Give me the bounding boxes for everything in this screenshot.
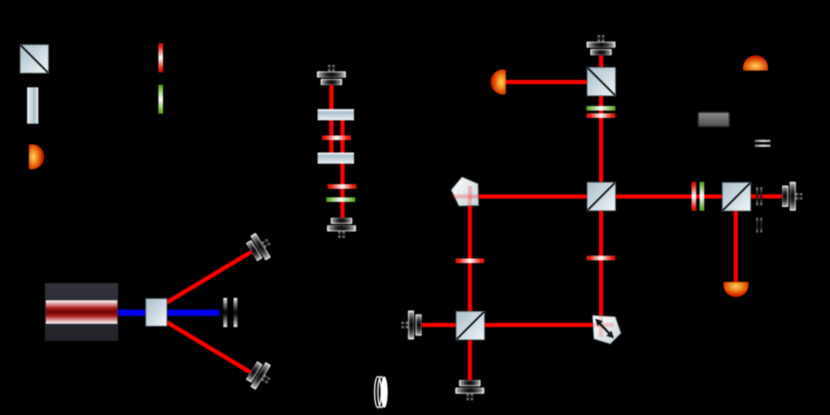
beam BS1-to-BS2 vertical [599, 96, 603, 183]
AOM crystal [146, 299, 167, 327]
legend red waveplate [158, 43, 163, 72]
telescope mid red waveplate [322, 136, 351, 141]
steering mirror lower [244, 358, 276, 393]
photodiode PD4 [724, 282, 749, 297]
beam BS4-to-bottom-mirror vertical [468, 339, 472, 380]
beam AOM-to-etalon (blue) [167, 310, 220, 316]
photodiode PD1 [491, 70, 506, 95]
legend gray box [698, 112, 729, 127]
beam lens1-to-lens2 left [329, 118, 333, 154]
legend beam-splitter cube [20, 45, 49, 74]
beam pentaprism-to-BS2 horizontal [458, 194, 588, 198]
beam BS3-to-right-mirror [749, 194, 783, 198]
legend photodiode top-right [743, 55, 768, 70]
beam splitter BS4 [456, 311, 485, 340]
red waveplate above BS4 [455, 259, 484, 264]
right end mirror [782, 182, 802, 211]
aperture pair right of BS3 [756, 187, 762, 205]
laser box [45, 283, 118, 341]
mirror left of BS4 [402, 311, 422, 340]
beam telescope-mirror-to-lens1 [329, 84, 333, 110]
beam top-mirror-to-BS1 [599, 55, 603, 68]
beam BS2-to-BS3 horizontal [614, 194, 723, 198]
beam PD1-to-BS1 [506, 80, 589, 84]
beam BS4-to-piezo-pentagon horizontal [483, 323, 613, 327]
telescope lens L1 [318, 109, 354, 120]
piezo pentagon mirror [592, 315, 621, 344]
beam splitter BS3 [722, 182, 751, 211]
telescope lens L2 [318, 153, 354, 164]
beam lens1-to-lens2 right [340, 118, 344, 154]
etalon plate 1 [223, 298, 227, 327]
telescope bottom mirror [327, 218, 356, 238]
legend photodiode [29, 144, 44, 169]
aperture pair below BS3 [756, 218, 762, 233]
etalon plate 2 [234, 298, 238, 327]
pentaprism [451, 177, 479, 206]
beam lens2-to-telescope-bottom-mirror [340, 162, 344, 218]
beam left-mirror-to-BS4 [422, 323, 458, 327]
legend green waveplate [158, 85, 163, 114]
beam splitter BS1 [587, 67, 616, 96]
red waveplate below BS1 [586, 113, 615, 118]
beam BS3-to-PD4 vertical [734, 210, 738, 282]
beam AOM-to-lower-steering-mirror [165, 320, 256, 377]
scanned lens ellipse [375, 376, 388, 407]
mirror above BS1 [587, 35, 616, 55]
beam BS2-to-piezo-pentagon vertical [599, 210, 603, 338]
steering mirror upper [244, 229, 276, 264]
green waveplate on BS2-BS3 path [700, 182, 705, 211]
legend double-bar icon [755, 140, 771, 147]
legend lens (vertical) [27, 87, 38, 123]
telescope green waveplate [326, 197, 355, 202]
green waveplate below BS1 [586, 106, 615, 111]
red waveplate above piezo-pentagon [586, 256, 615, 261]
laser output stripe [46, 300, 118, 324]
telescope lower red waveplate [328, 184, 357, 189]
red waveplate on BS2-BS3 path [692, 182, 697, 211]
beam AOM-to-upper-steering-mirror [165, 248, 256, 305]
beam pentaprism-to-BS4 vertical [468, 191, 472, 312]
beam splitter BS2 [587, 182, 616, 211]
beam laser-to-AOM (blue) [118, 310, 147, 316]
mirror below BS4 [455, 380, 484, 400]
telescope top mirror [317, 65, 346, 85]
